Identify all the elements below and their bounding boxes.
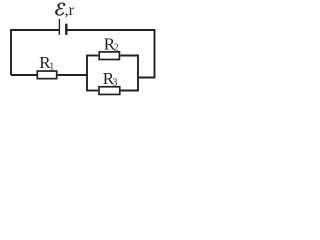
battery E,r long plate (58, 19, 60, 35)
svg-text:1: 1 (49, 62, 54, 73)
node B: right vertical of parallel block (137, 55, 139, 92)
battery E,r short thick plate (65, 24, 67, 35)
svg-text:,r: ,r (65, 2, 75, 19)
wire: R1 branch left lead (11, 74, 37, 76)
resistor R2 box (99, 52, 119, 60)
svg-text:2: 2 (114, 43, 119, 54)
wire: battery right lead to top-right corner, down right side, link to node B (67, 30, 154, 78)
label E,r : script E glyph (55, 3, 65, 16)
wire: R3 branch right lead (121, 90, 138, 92)
resistor R1 box (37, 71, 56, 79)
wire: R2 branch left lead (87, 55, 98, 57)
wire: R3 branch left lead (87, 90, 98, 92)
node A: left vertical of parallel block (86, 55, 88, 92)
wire: R1 branch right lead to node A (58, 74, 88, 76)
svg-text:3: 3 (112, 77, 117, 88)
resistor R3 box (99, 87, 120, 95)
wire: top-left segment + left vertical (battery left lead) (11, 30, 59, 75)
wire: R2 branch right lead (120, 55, 138, 57)
